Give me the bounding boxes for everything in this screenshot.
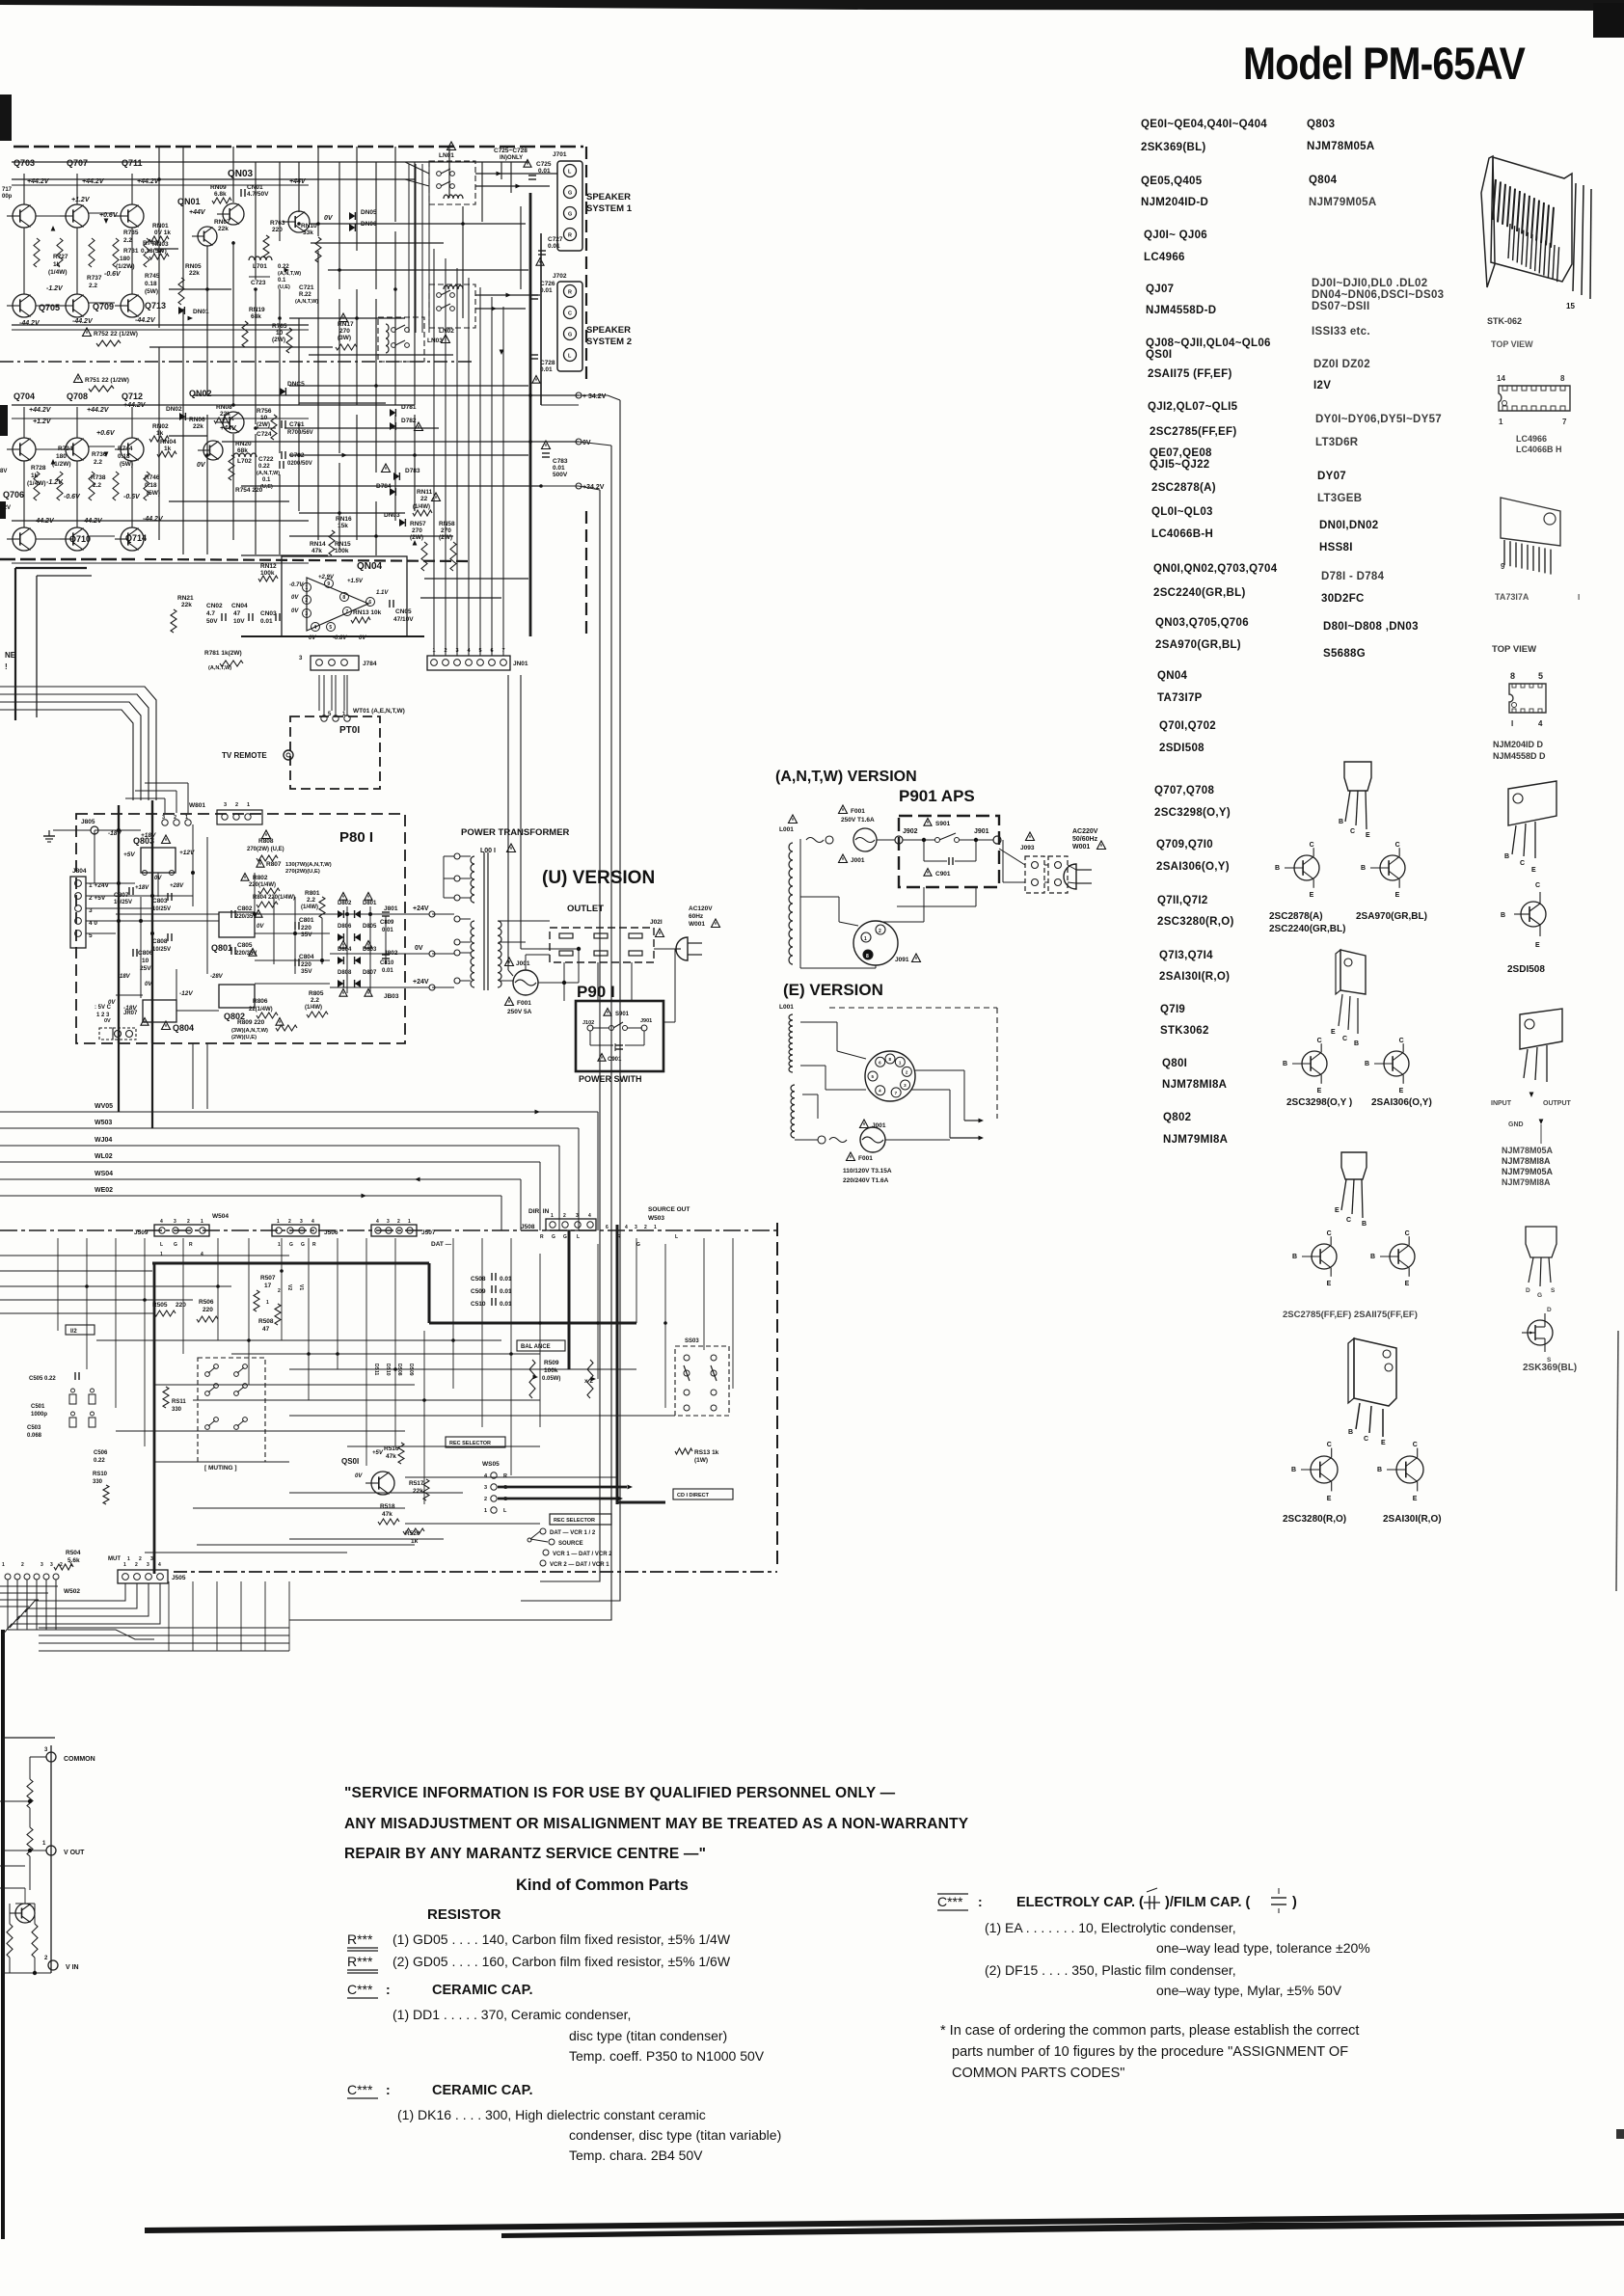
svg-text:2SDI508: 2SDI508 (1507, 964, 1545, 975)
svg-text:1k: 1k (156, 430, 164, 437)
transistor Q705 (13, 294, 36, 317)
fuse J001 E (829, 1138, 847, 1143)
svg-text:DJ0I~DJI0,DL0 .DL02: DJ0I~DJI0,DL0 .DL02 (1312, 278, 1427, 289)
wire heavy trace 1 (152, 1262, 429, 1265)
pin 5 QN04 (327, 623, 336, 632)
svg-text:2SC2878(A): 2SC2878(A) (1151, 482, 1216, 494)
svg-text:S901: S901 (615, 1012, 630, 1017)
svg-text:P90 I: P90 I (577, 983, 615, 1001)
svg-text:V OUT: V OUT (64, 1850, 85, 1856)
svg-text:Q7II,Q7I2: Q7II,Q7I2 (1157, 895, 1208, 906)
svg-text:270: 270 (412, 527, 422, 534)
svg-text:2: 2 (60, 1562, 63, 1568)
svg-text:8: 8 (1510, 671, 1515, 681)
svg-text:D801: D801 (363, 901, 377, 906)
svg-text:C810: C810 (380, 960, 394, 966)
svg-text:J509: J509 (134, 1229, 149, 1236)
svg-text:9: 9 (1501, 562, 1505, 571)
svg-text:REC SELECTOR: REC SELECTOR (554, 1518, 595, 1524)
svg-text:NJM79M05A: NJM79M05A (1502, 1167, 1554, 1176)
junction dots P801 (117, 881, 121, 885)
middle band top border dash-dot (0, 1229, 777, 1231)
resistor (89, 238, 95, 267)
wire (76, 174, 78, 204)
svg-text:* In case of ordering the comm: * In case of ordering the common parts, … (940, 2023, 1359, 2039)
svg-text:RN01: RN01 (152, 223, 169, 230)
pin 3 QN04 (303, 609, 311, 618)
svg-text:2: 2 (305, 598, 308, 604)
left pins middle band (5, 1574, 11, 1580)
svg-text:condenser, disc type (titan va: condenser, disc type (titan variable) (569, 2127, 781, 2143)
transistor QN03 upper (223, 203, 244, 225)
wires transformer left (432, 913, 454, 915)
wire aps (877, 839, 895, 841)
svg-text:TOP VIEW: TOP VIEW (1492, 644, 1536, 655)
svg-text:0.05W): 0.05W) (542, 1376, 560, 1382)
wire (131, 407, 133, 438)
svg-text:L: L (160, 1242, 163, 1248)
svg-text:2: 2 (644, 1225, 647, 1230)
left edge black mark top (0, 95, 12, 141)
svg-text:G: G (289, 1242, 293, 1248)
svg-text:E: E (1335, 1207, 1340, 1214)
svg-text:4: 4 (160, 1219, 163, 1225)
svg-text:25V: 25V (140, 965, 151, 972)
svg-text:E: E (1413, 1496, 1418, 1502)
svg-text:R763: R763 (270, 220, 285, 227)
svg-text:5: 5 (1538, 671, 1543, 681)
svg-text:disc type (titan condenser): disc type (titan condenser) (569, 2028, 727, 2043)
wires J505 fan (25, 1583, 125, 1612)
svg-text:22k: 22k (220, 411, 230, 418)
svg-text:R735: R735 (123, 230, 139, 236)
svg-text:WS04: WS04 (95, 1171, 113, 1177)
block MUTING (198, 1358, 265, 1462)
socket E version (865, 1051, 915, 1101)
svg-text:1: 1 (123, 1562, 126, 1568)
svg-text:J001: J001 (516, 960, 530, 967)
svg-text:220: 220 (176, 1302, 186, 1309)
svg-text:330: 330 (93, 1479, 103, 1485)
svg-text:R727: R727 (53, 254, 68, 260)
svg-text:3: 3 (484, 1485, 487, 1491)
svg-text:00p: 00p (2, 194, 13, 200)
pins STK-062 right (1573, 183, 1576, 291)
svg-text:J001: J001 (872, 1122, 886, 1129)
svg-text:+5V: +5V (372, 1450, 384, 1456)
svg-text:Q704: Q704 (14, 392, 35, 401)
svg-text:DS09: DS09 (408, 1364, 414, 1376)
svg-text:W001: W001 (689, 921, 705, 928)
fragment wires (30, 1756, 46, 1758)
svg-text:J784: J784 (363, 661, 377, 667)
svg-text:220: 220 (301, 961, 311, 968)
svg-text:RN21: RN21 (177, 595, 194, 602)
connector J506 (272, 1225, 319, 1236)
package TO-220 2SD1508 (1508, 781, 1556, 825)
wire feeder +34.2V b (540, 490, 600, 1581)
package SIP TA7317A (1501, 498, 1560, 546)
svg-text:LC4966: LC4966 (1144, 252, 1185, 263)
svg-text:8: 8 (342, 595, 345, 601)
svg-text:R756: R756 (257, 408, 272, 415)
block PT01 dashed (290, 716, 380, 789)
svg-text:-1.2V: -1.2V (46, 285, 64, 292)
legend DAT VCR (540, 1528, 546, 1534)
svg-text:D802: D802 (338, 901, 352, 906)
svg-text:JN01: JN01 (513, 661, 528, 667)
svg-text:CN02: CN02 (206, 603, 223, 609)
wire mesh vertical amp (158, 147, 160, 328)
svg-text:0.01: 0.01 (382, 968, 393, 974)
regulator Q802 box (219, 985, 255, 1008)
box CD1 DIRECT (673, 1489, 733, 1499)
svg-text:J901: J901 (974, 828, 989, 835)
svg-text:1: 1 (266, 1300, 269, 1306)
svg-text:QE0I~QE04,Q40I~Q404: QE0I~QE04,Q40I~Q404 (1141, 119, 1267, 130)
svg-text:CERAMIC CAP.: CERAMIC CAP. (432, 2083, 532, 2098)
svg-text:E: E (1395, 892, 1400, 899)
svg-text:NJM4558D D: NJM4558D D (1493, 751, 1546, 761)
svg-text:RESISTOR: RESISTOR (427, 1906, 501, 1923)
svg-text:B: B (1370, 1254, 1375, 1260)
svg-text:Q804: Q804 (173, 1023, 194, 1033)
svg-text:Q80I: Q80I (1162, 1058, 1187, 1069)
svg-text:E: E (1381, 1440, 1386, 1446)
amp block separator dash-dot y375 (0, 361, 473, 363)
fragment top wire (3, 1737, 55, 1739)
wire (131, 174, 133, 204)
svg-text:RN09: RN09 (210, 184, 227, 191)
svg-text:15: 15 (1566, 302, 1575, 311)
svg-text:R805: R805 (309, 990, 324, 997)
svg-text:0V: 0V (324, 215, 334, 222)
svg-text:R806: R806 (253, 998, 268, 1005)
svg-text:1k: 1k (164, 446, 172, 452)
svg-text:C509: C509 (471, 1288, 486, 1295)
svg-text:DIR. IN: DIR. IN (528, 1208, 550, 1215)
wire (36, 215, 60, 217)
svg-text:22k: 22k (189, 270, 200, 277)
svg-text:C809: C809 (380, 920, 394, 926)
wire PT01 drop (323, 675, 325, 716)
svg-text:B: B (1504, 853, 1509, 860)
svg-text:0200/50V: 0200/50V (287, 461, 312, 467)
wire (23, 174, 25, 204)
svg-text:NJM78M05A: NJM78M05A (1307, 141, 1374, 152)
svg-text:Q803: Q803 (1307, 119, 1335, 130)
svg-text:G: G (568, 191, 572, 197)
svg-text:3: 3 (576, 1213, 579, 1219)
svg-text:QE07,QE08: QE07,QE08 (1150, 447, 1212, 459)
svg-text:2SC2785(FF,EF) 2SAII75(FF,EF: 2SC2785(FF,EF) 2SAII75(FF,EF) (1283, 1310, 1418, 1320)
svg-text:G: G (563, 1234, 567, 1240)
svg-text:0V: 0V (355, 1473, 363, 1479)
resistor (57, 238, 63, 267)
svg-text:2: 2 (484, 1497, 487, 1502)
svg-text:NE: NE (5, 651, 16, 660)
relay LN03 (378, 317, 424, 362)
svg-text:B: B (1291, 1467, 1296, 1473)
svg-text:10: 10 (142, 958, 149, 964)
svg-text:RN14: RN14 (310, 541, 326, 548)
svg-text:C: C (1310, 842, 1314, 849)
svg-text:R752 22 (1/2W): R752 22 (1/2W) (94, 331, 138, 338)
svg-text:TV REMOTE: TV REMOTE (222, 751, 267, 760)
svg-text:C808: C808 (152, 938, 168, 945)
svg-text:D: D (1526, 1287, 1530, 1294)
wire mesh horizontal amp (12, 161, 528, 163)
svg-text:R745: R745 (145, 273, 160, 280)
svg-text:R518: R518 (380, 1503, 395, 1510)
svg-text:RN02: RN02 (152, 423, 169, 430)
svg-text:REPAIR BY ANY MARANTZ SERVICE: REPAIR BY ANY MARANTZ SERVICE CENTRE —" (344, 1846, 706, 1862)
svg-text:QN01: QN01 (177, 197, 201, 206)
package TO-92 2SC2878 (1344, 762, 1371, 791)
wire risers below P801 (192, 1043, 194, 1109)
svg-text:LT3GEB: LT3GEB (1317, 493, 1362, 504)
svg-text:L001: L001 (779, 1004, 794, 1011)
svg-text:W504: W504 (212, 1213, 229, 1220)
svg-text:3: 3 (635, 1225, 637, 1230)
svg-text:(2W)(U,E): (2W)(U,E) (231, 1035, 257, 1040)
transformer terminals (454, 853, 460, 859)
svg-text:Q802: Q802 (1163, 1112, 1191, 1123)
svg-text:(1/4W): (1/4W) (413, 504, 430, 510)
symbol 2SA1175 (1390, 1244, 1415, 1269)
svg-text:CERAMIC CAP.: CERAMIC CAP. (432, 1983, 532, 1998)
label BALANCE (517, 1340, 565, 1351)
svg-text:E: E (1327, 1496, 1332, 1502)
svg-text:R: R (568, 290, 572, 296)
svg-text:R731: R731 (123, 248, 139, 255)
capacitor C901 U (614, 1043, 616, 1051)
svg-text:RN06: RN06 (189, 417, 205, 423)
svg-text:2SC2240(GR,BL): 2SC2240(GR,BL) (1153, 587, 1246, 599)
bottom thick rule 2 (501, 2221, 1624, 2238)
svg-text:7: 7 (345, 609, 348, 615)
svg-text:J093: J093 (1020, 845, 1035, 851)
svg-text:WS05: WS05 (482, 1461, 500, 1468)
svg-text:J901: J901 (640, 1018, 652, 1024)
svg-text:C505 0.22: C505 0.22 (29, 1376, 56, 1382)
svg-text:SPEAKER: SPEAKER (586, 192, 631, 203)
svg-text:RN58: RN58 (439, 521, 455, 527)
fragment resistor 2 (27, 1827, 33, 1856)
svg-text:-44.2V: -44.2V (135, 317, 156, 324)
svg-text:Q710: Q710 (69, 534, 91, 544)
svg-text:0.22: 0.22 (94, 1458, 105, 1464)
svg-text:0.1: 0.1 (262, 477, 271, 483)
svg-text:RN16: RN16 (336, 516, 352, 523)
wire heavy trace 3 (616, 1225, 619, 1504)
svg-text:0V: 0V (415, 945, 423, 952)
svg-text:C: C (1405, 1230, 1410, 1237)
svg-text:3: 3 (300, 1219, 303, 1225)
svg-text:QN02: QN02 (189, 389, 212, 398)
svg-text:L701: L701 (253, 263, 267, 270)
svg-text:330: 330 (172, 1407, 182, 1413)
svg-text:100k: 100k (335, 548, 349, 554)
wires E version (800, 1021, 837, 1023)
transistor Q706 (13, 527, 36, 551)
wires middle mesh (0, 1255, 289, 1256)
wires P801 internal (118, 805, 120, 1043)
svg-text:8: 8 (866, 954, 869, 959)
svg-text:6: 6 (606, 1225, 609, 1230)
svg-text:WE02: WE02 (95, 1187, 113, 1194)
svg-text:I2V: I2V (1313, 380, 1331, 392)
svg-text:4.7/50V: 4.7/50V (247, 191, 269, 198)
fragment transistor (15, 1904, 35, 1923)
svg-text:I: I (1578, 593, 1580, 602)
svg-text:RN05: RN05 (185, 263, 202, 270)
svg-text:L001: L001 (779, 826, 794, 833)
svg-text:+1.2V: +1.2V (71, 197, 91, 203)
svg-text:I: I (1511, 719, 1513, 728)
svg-text:500V: 500V (553, 472, 568, 478)
svg-text:C: C (1346, 1217, 1351, 1224)
svg-text:REC SELECTOR: REC SELECTOR (449, 1441, 491, 1446)
svg-text:0.01: 0.01 (548, 243, 560, 250)
svg-text:-28V: -28V (210, 974, 224, 980)
svg-text:C726: C726 (540, 281, 555, 287)
svg-text:C: C (1327, 1442, 1332, 1448)
svg-text:C: C (568, 311, 572, 317)
svg-text:C783: C783 (553, 458, 568, 465)
svg-text:Q714: Q714 (125, 533, 147, 543)
svg-text:110/120V T3.15A: 110/120V T3.15A (843, 1168, 892, 1175)
svg-text:Q707,Q708: Q707,Q708 (1154, 785, 1214, 797)
svg-text:J702: J702 (553, 273, 567, 280)
svg-text:DNC5: DNC5 (287, 381, 305, 388)
svg-text:J507: J507 (421, 1229, 436, 1236)
svg-text:QJ08~QJII,QL04~QL06: QJ08~QJII,QL04~QL06 (1146, 338, 1271, 349)
symbol 2SC2785 (1312, 1244, 1337, 1269)
svg-text:LN01: LN01 (439, 152, 454, 159)
wires socket antw (800, 896, 839, 898)
transistor Q714 (121, 527, 144, 551)
svg-text:270: 270 (339, 328, 350, 335)
svg-text:0.01: 0.01 (382, 928, 393, 933)
svg-text:270: 270 (441, 527, 451, 534)
svg-text:(3W)(A,N,T,W): (3W)(A,N,T,W) (231, 1028, 268, 1034)
svg-text:47k: 47k (311, 548, 322, 554)
svg-text:G: G (568, 212, 572, 218)
wire feeder 0V (289, 446, 611, 1620)
svg-text:POWER SWITH: POWER SWITH (579, 1074, 642, 1084)
arrow on WV05 (535, 1110, 541, 1115)
svg-text:2SDI508: 2SDI508 (1159, 743, 1204, 754)
svg-text:(1) DK16 . . . . 300, High d: (1) DK16 . . . . 300, High dielectric co… (397, 2107, 706, 2122)
svg-text:J804: J804 (72, 868, 87, 875)
svg-text:2: 2 (135, 1562, 138, 1568)
svg-text:4: 4 (158, 1562, 161, 1568)
svg-text:C: C (1350, 828, 1355, 835)
svg-text:D783: D783 (405, 468, 420, 474)
svg-text:R504: R504 (66, 1550, 81, 1556)
svg-text:DN0I,DN02: DN0I,DN02 (1319, 520, 1379, 531)
svg-text:R***: R*** (347, 1954, 373, 1969)
pin 7 QN04 (343, 608, 352, 616)
svg-text:QJ07: QJ07 (1146, 284, 1174, 295)
svg-text:E: E (1310, 892, 1314, 899)
resistor (113, 472, 119, 500)
relay LN02 (429, 284, 475, 328)
svg-text:VCR 2 — DAT / VCR 1: VCR 2 — DAT / VCR 1 (550, 1562, 609, 1568)
svg-text:C***: C*** (937, 1894, 963, 1909)
svg-text:Temp. chara. 2B4 50V: Temp. chara. 2B4 50V (569, 2147, 703, 2163)
pin 2 QN04 (303, 596, 311, 605)
svg-text:RN11: RN11 (417, 489, 433, 496)
socket J091 (853, 921, 898, 965)
svg-text:2.2: 2.2 (94, 459, 102, 466)
svg-text:R516: R516 (384, 1445, 399, 1452)
svg-text:QN04: QN04 (357, 561, 383, 572)
svg-text:+44V: +44V (189, 209, 206, 216)
svg-text:1: 1 (127, 1556, 130, 1562)
svg-text:(1) GD05 . . . . 140, Carbon: (1) GD05 . . . . 140, Carbon film fixed … (392, 1931, 731, 1947)
svg-text:NJM79M05A: NJM79M05A (1309, 197, 1376, 208)
package TO-3P 2SC3280 (1354, 1338, 1396, 1406)
svg-text:2.2: 2.2 (89, 283, 97, 289)
svg-text:J508: J508 (521, 1224, 535, 1230)
svg-text:C727: C727 (548, 236, 563, 243)
page top edge black strip (0, 0, 1624, 11)
svg-text:"SERVICE INFORMATION IS FOR US: "SERVICE INFORMATION IS FOR USE BY QUALI… (344, 1785, 896, 1801)
svg-text:DN05: DN05 (361, 209, 377, 216)
svg-text:QS0I: QS0I (341, 1457, 359, 1466)
resistor RS13 1k (1W) (675, 1448, 692, 1454)
svg-text:Model PM-65AV: Model PM-65AV (1243, 38, 1526, 89)
svg-text:1: 1 (408, 1219, 411, 1225)
svg-text:-0.7V: -0.7V (289, 582, 304, 588)
svg-text:1: 1 (278, 1242, 281, 1248)
svg-text:0V: 0V (104, 1018, 111, 1024)
svg-text:: 5V C: : 5V C (95, 1005, 112, 1011)
svg-text:0.01: 0.01 (500, 1288, 512, 1295)
svg-text:C801: C801 (299, 917, 314, 924)
svg-text:RN03: RN03 (152, 241, 169, 248)
svg-text:C: C (1342, 1036, 1347, 1042)
transistor QN03 output (288, 211, 310, 232)
wire AC feeder 1 (507, 675, 509, 970)
svg-text:+5V: +5V (123, 851, 135, 858)
svg-text:B: B (1501, 912, 1505, 919)
plug antw (1064, 864, 1076, 889)
svg-text:C501: C501 (31, 1404, 45, 1410)
svg-text:NJM78MI8A: NJM78MI8A (1502, 1156, 1551, 1166)
svg-text:L702: L702 (237, 458, 252, 465)
svg-text:R: R (540, 1234, 544, 1240)
svg-text:Q804: Q804 (1309, 175, 1338, 186)
svg-text:(1/4W): (1/4W) (301, 905, 318, 910)
svg-text:[ MUTING ]: [ MUTING ] (204, 1465, 237, 1472)
svg-text:INPUT: INPUT (1491, 1100, 1512, 1107)
svg-text:250V T1.6A: 250V T1.6A (841, 817, 875, 824)
svg-text:C804: C804 (299, 954, 314, 960)
svg-text:DY07: DY07 (1317, 471, 1346, 482)
svg-text:10: 10 (260, 415, 268, 421)
svg-text:0.01: 0.01 (540, 287, 553, 294)
svg-text:Q711: Q711 (122, 158, 143, 168)
svg-text:+24V: +24V (413, 905, 429, 912)
svg-text:R: R (189, 1242, 193, 1248)
svg-text:4: 4 (201, 1252, 203, 1257)
svg-text:2SC3298(O,Y ): 2SC3298(O,Y ) (1286, 1097, 1352, 1108)
svg-text:(1) EA . . . . . . . 10, El: (1) EA . . . . . . . 10, Electrolytic co… (985, 1920, 1236, 1935)
svg-text:(U) VERSION: (U) VERSION (542, 868, 655, 888)
